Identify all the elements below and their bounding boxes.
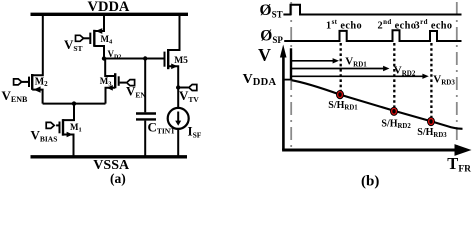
svg-text:(a): (a) [110, 171, 126, 186]
svg-text:M5: M5 [174, 56, 188, 66]
svg-text:VDDA: VDDA [88, 0, 130, 15]
svg-text:1st echo: 1st echo [326, 18, 362, 31]
svg-text:V: V [258, 45, 271, 65]
svg-text:(b): (b) [361, 174, 379, 190]
